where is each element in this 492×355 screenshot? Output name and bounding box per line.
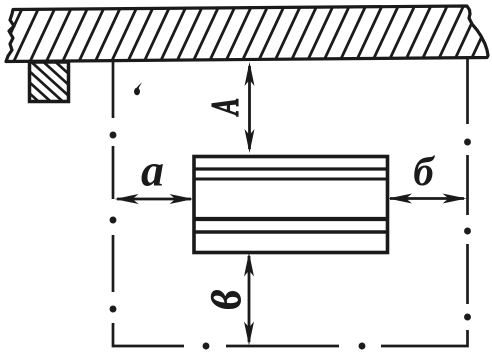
svg-text:б: б xyxy=(413,148,435,194)
svg-text:в: в xyxy=(185,289,255,310)
svg-text:а: а xyxy=(141,145,164,196)
svg-text:А: А xyxy=(204,98,246,117)
